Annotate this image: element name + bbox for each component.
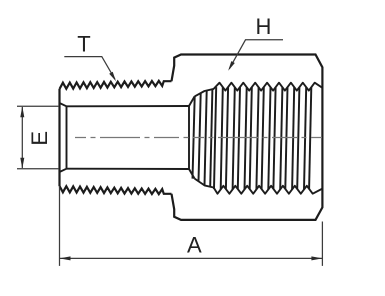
svg-text:E: E bbox=[27, 131, 52, 146]
svg-text:T: T bbox=[77, 32, 90, 57]
svg-text:H: H bbox=[255, 14, 271, 39]
svg-text:A: A bbox=[187, 233, 202, 258]
